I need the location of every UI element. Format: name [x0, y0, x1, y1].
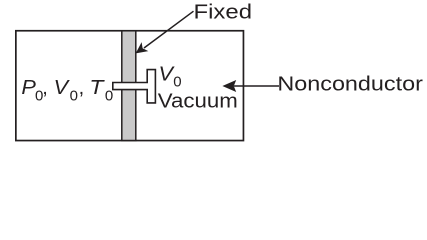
svg-text:0: 0 — [173, 74, 181, 91]
svg-text:V: V — [54, 77, 70, 99]
svg-text:Nonconductor: Nonconductor — [277, 73, 423, 95]
valve plug (T-shaped, white) — [113, 70, 156, 103]
svg-text:0: 0 — [105, 88, 113, 105]
svg-text:0: 0 — [70, 88, 78, 105]
leader line to container wall — [234, 85, 279, 87]
svg-text:Vacuum: Vacuum — [158, 90, 238, 112]
partition (fixed, gray) — [122, 31, 136, 141]
svg-text:T: T — [89, 77, 105, 99]
container box — [16, 31, 244, 141]
svg-text:,: , — [42, 77, 48, 99]
arrowhead at partition — [136, 42, 149, 53]
svg-text:Fixed: Fixed — [194, 2, 253, 24]
svg-text:,: , — [79, 77, 85, 99]
arrowhead at container wall — [222, 80, 236, 92]
leader line to partition — [144, 11, 194, 48]
